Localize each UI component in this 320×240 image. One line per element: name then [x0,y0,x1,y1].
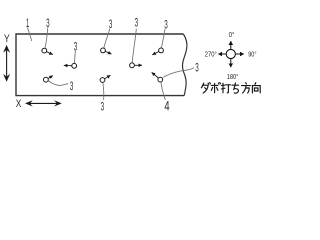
leader 3d to dowel circle 3 [161,29,165,48]
leader from dowel 7 to label 3g [103,82,104,99]
dowel circle 1 [42,48,47,53]
svg-text:3: 3 [195,63,199,75]
svg-text:3: 3 [101,102,105,114]
plate 1 wavy right break edge [183,34,187,96]
arrow of dowel 4 (left) [64,64,72,66]
arrow of dowel 2 (down-right) [105,51,111,54]
compass arrow left (270 deg) [218,53,225,55]
svg-text:4: 4 [164,98,169,114]
dowel circle 6 [44,77,49,82]
leader from dowel 8 to label 4 [161,82,166,100]
dowel circle 8 [158,77,163,82]
glyph U (hand radical + cho) [221,83,230,93]
glyph KOU [252,83,260,93]
svg-text:3: 3 [135,18,139,30]
svg-text:270°: 270° [205,50,217,59]
leader 3e to dowel circle 4 [73,51,76,64]
arrow of dowel 5 (right) [135,64,143,66]
glyph HOU [242,83,251,93]
compass arrow right (90 deg) [236,53,244,55]
dowel circle 2 [101,48,106,53]
arrow of dowel 7 (up-right) [105,75,111,79]
arrow of dowel 1 (down-right) [47,52,53,55]
glyph CHI [232,83,239,93]
dowel circle 4 [72,63,77,68]
leader from dowel 8 to label 3h [163,68,194,78]
svg-text:90°: 90° [248,50,256,59]
leader from 1 to plate [28,28,32,42]
dowel circle 3 [159,48,164,53]
dowel circle 7 [100,78,105,83]
glyph DA [201,83,203,88]
X double arrow [28,102,60,104]
leader 3a to dowel circle 1 [45,28,48,49]
compass rose circle [226,49,235,58]
svg-text:X: X [16,98,22,110]
glyph BO [211,83,220,93]
leader from dowel 6 to label 3f [48,81,68,86]
svg-text:3: 3 [70,81,74,93]
svg-text:180°: 180° [227,72,239,81]
svg-text:Y: Y [4,33,10,45]
Y double arrow [6,48,8,80]
leader 3b to dowel circle 2 [104,29,110,49]
compass arrow up (0 deg) [230,41,232,49]
arrow of dowel 8 (up-left) [152,72,159,78]
arrow of dowel 3 (down-left) [152,52,159,55]
caption "dabo-uchi houkou" (dowel driving direction), drawn glyphs [201,83,260,94]
leader 3c to dowel circle 5 [132,29,136,63]
dowel circle 5 [130,63,135,68]
arrow of dowel 6 (up-right) [48,76,53,79]
svg-text:0°: 0° [229,30,235,39]
plate 1 outline: top, left, bottom edges [16,34,184,96]
compass arrow down (180 deg) [230,59,232,67]
